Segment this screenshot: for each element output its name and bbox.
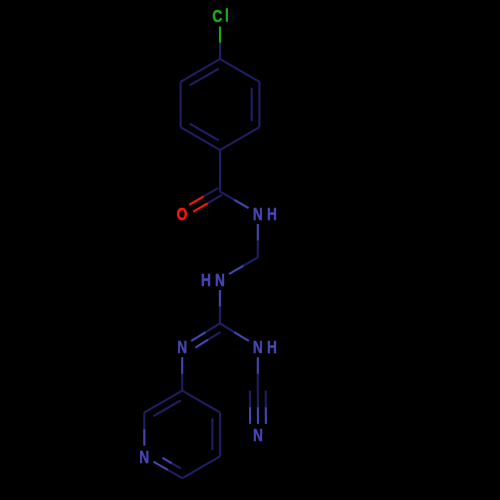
bond C1-C2 benzene xyxy=(220,59,259,82)
bond N1'-C2' pyridine xyxy=(143,413,145,446)
bond N4-C9 (cyanamide) xyxy=(257,357,259,390)
carbonyl C7=O double bond xyxy=(189,188,222,212)
nitrile triple bond C9#N5 xyxy=(250,391,266,424)
label N (pyridine) xyxy=(139,449,149,468)
svg-text:N: N xyxy=(253,427,263,446)
bond C2'-C3' pyridine xyxy=(144,391,182,413)
double bond inner line C6=C1 xyxy=(190,69,219,86)
svg-text:N: N xyxy=(177,339,187,358)
svg-text:N: N xyxy=(253,339,263,358)
svg-text:H: H xyxy=(267,339,277,358)
bond C4-C7 (to carbonyl) xyxy=(219,150,221,192)
svg-text:H: H xyxy=(267,205,277,224)
bond N2-C8 (guanidine C) xyxy=(219,290,221,323)
label N (nitrile) xyxy=(253,427,263,446)
bond C3-C4 benzene xyxy=(220,127,259,150)
double bond inner line C4'=C5' xyxy=(211,419,213,451)
svg-text:C: C xyxy=(212,8,222,27)
svg-text:H: H xyxy=(201,271,211,290)
bond C4'-C5' pyridine xyxy=(219,413,221,457)
svg-text:N: N xyxy=(139,449,149,468)
bond C4-C5 benzene xyxy=(181,127,220,150)
label N (imine) xyxy=(177,339,187,358)
bond C11-N2 xyxy=(229,257,258,274)
svg-text:O: O xyxy=(177,206,188,225)
bond C5'-C6' pyridine xyxy=(182,456,220,478)
bond C8-N4 xyxy=(220,323,249,341)
double bond inner line C2=C3 xyxy=(251,88,253,121)
label O (carbonyl) xyxy=(177,206,188,225)
bond C6'-N1' pyridine xyxy=(153,462,182,479)
bond C6-C1 benzene xyxy=(181,59,220,82)
bond C5-C6 benzene xyxy=(180,82,182,127)
double bond inner line C6'=N1' xyxy=(163,458,181,469)
double bond inner line C4=C5 xyxy=(190,124,219,141)
svg-text:N: N xyxy=(253,205,263,224)
bond N3-C10 (to pyridine) xyxy=(181,357,183,390)
guanidine double bond C8=N3 xyxy=(191,323,220,347)
double bond inner line C2'=C3' xyxy=(153,400,181,416)
label Cl xyxy=(212,7,228,26)
svg-text:l: l xyxy=(225,7,229,26)
bond C3'-C4' pyridine xyxy=(182,391,220,413)
svg-text:N: N xyxy=(215,271,225,290)
label HN xyxy=(201,271,225,290)
bond N1-C11 (CH2) xyxy=(257,224,259,257)
label NH (amide) xyxy=(253,205,277,224)
bond Cl-C1 (chlorobenzene) xyxy=(219,27,221,60)
bond C2-C3 benzene xyxy=(258,82,260,127)
amide bond C7-N1 xyxy=(220,192,249,209)
label NH (cyanamide) xyxy=(253,339,277,358)
